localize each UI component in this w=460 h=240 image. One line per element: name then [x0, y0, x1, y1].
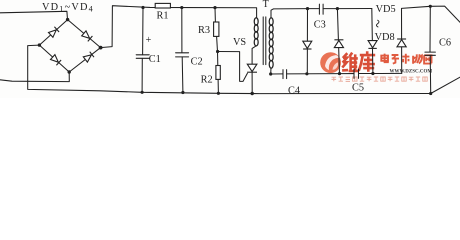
svg-text:R1: R1	[157, 10, 169, 21]
diode VD6	[334, 40, 343, 47]
svg-text:VS: VS	[233, 37, 246, 48]
wire diode column VD5a	[306, 9, 308, 74]
capacitor C4 plates	[283, 70, 287, 79]
wire diode column VD5c	[372, 9, 373, 74]
svg-text:R2: R2	[201, 74, 213, 85]
junction node bottom vertex	[68, 70, 71, 73]
wire line A right of C3	[323, 8, 372, 10]
diode VD8	[397, 40, 406, 47]
svg-text:C4: C4	[288, 85, 300, 96]
wire AC input top	[0, 11, 68, 19]
svg-text:C1: C1	[149, 54, 161, 65]
capacitor C2 plates	[176, 53, 189, 57]
wire mid line with C4 C5	[271, 72, 402, 75]
junction node C6 bottom rail	[429, 92, 432, 95]
watermark logo 维库电子市场网	[320, 51, 432, 81]
wire R2 leads	[217, 52, 220, 94]
junction node secondary bottom	[269, 72, 272, 75]
watermark text 库	[359, 51, 376, 71]
capacitor C6 plates	[425, 52, 436, 55]
wire DC minus from left vertex down to bottom rail	[28, 45, 431, 94]
wire SCR anode from primary	[252, 46, 256, 65]
svg-text:C3: C3	[314, 19, 326, 30]
watermark text 电子市场网	[381, 54, 431, 64]
wire C1 column	[141, 7, 144, 92]
transformer secondary winding	[269, 18, 273, 26]
junction node C2 bottom	[181, 91, 184, 94]
svg-text:VD5: VD5	[376, 4, 396, 15]
svg-text:C2: C2	[191, 56, 203, 67]
capacitor C5 plates	[354, 69, 359, 78]
label tilde between VD5 VD8	[376, 20, 379, 27]
junction node C2 top	[180, 6, 183, 9]
junction node SCR cathode rail	[251, 92, 254, 95]
watermark text 维	[342, 53, 358, 72]
junction node top vertex	[66, 18, 69, 21]
bridge diode VD4	[83, 55, 91, 62]
capacitor C3 plates	[319, 4, 323, 14]
wire SCR gate network	[218, 52, 248, 82]
wire SCR cathode	[251, 72, 253, 93]
junction node mid D2	[338, 72, 341, 75]
junction node C1 bottom	[141, 91, 144, 94]
svg-text:+: +	[146, 35, 152, 46]
junction node A gate divider	[216, 50, 219, 53]
wire output bottom diagonal	[431, 77, 460, 93]
watermark icon circle	[320, 52, 341, 73]
svg-text:C6: C6	[439, 37, 451, 48]
svg-text:T: T	[263, 0, 269, 10]
wire C2 column	[182, 8, 183, 93]
wire secondary top lead to line A	[271, 9, 319, 18]
junction node C6 top	[429, 5, 432, 8]
resistor R3 box	[214, 22, 219, 36]
junction node mid D1	[305, 72, 308, 75]
resistor R2 box	[216, 66, 220, 80]
svg-text:C5: C5	[352, 82, 364, 93]
svg-text:R3: R3	[198, 25, 210, 36]
wire diode column VD5d and top line C	[402, 6, 460, 73]
diode VD5	[303, 41, 312, 48]
watermark slogan row	[332, 77, 428, 81]
junction node R3 top	[213, 6, 216, 9]
junction node left vertex	[38, 43, 41, 46]
wire AC input bottom	[0, 72, 69, 82]
wire C6 column	[429, 6, 432, 93]
junction node right vertex	[99, 46, 103, 50]
junction node C1 top	[141, 6, 144, 9]
diode VD7	[368, 41, 377, 48]
bridge diode VD2	[82, 31, 90, 38]
resistor R1 box	[155, 3, 170, 8]
transformer primary winding	[254, 18, 258, 26]
bridge diode VD3	[51, 55, 59, 63]
wire secondary bottom lead	[270, 68, 272, 74]
wire DC plus from right vertex up to top rail	[101, 6, 257, 48]
junction node line A D2	[336, 7, 339, 10]
bridge diamond edges	[39, 20, 100, 72]
wire diode column VD5b	[337, 9, 339, 74]
capacitor C1 plates	[136, 55, 149, 59]
bridge diode VD1	[49, 30, 57, 38]
junction node mid D3	[371, 72, 374, 75]
transformer core	[263, 17, 266, 65]
thyristor VS symbol	[247, 64, 257, 71]
svg-text:VD1~VD4: VD1~VD4	[42, 2, 94, 14]
junction node line A D1	[306, 7, 309, 10]
junction node R2 bottom	[217, 92, 220, 95]
svg-text:VD8: VD8	[375, 32, 395, 43]
wire R3 leads	[215, 8, 218, 52]
